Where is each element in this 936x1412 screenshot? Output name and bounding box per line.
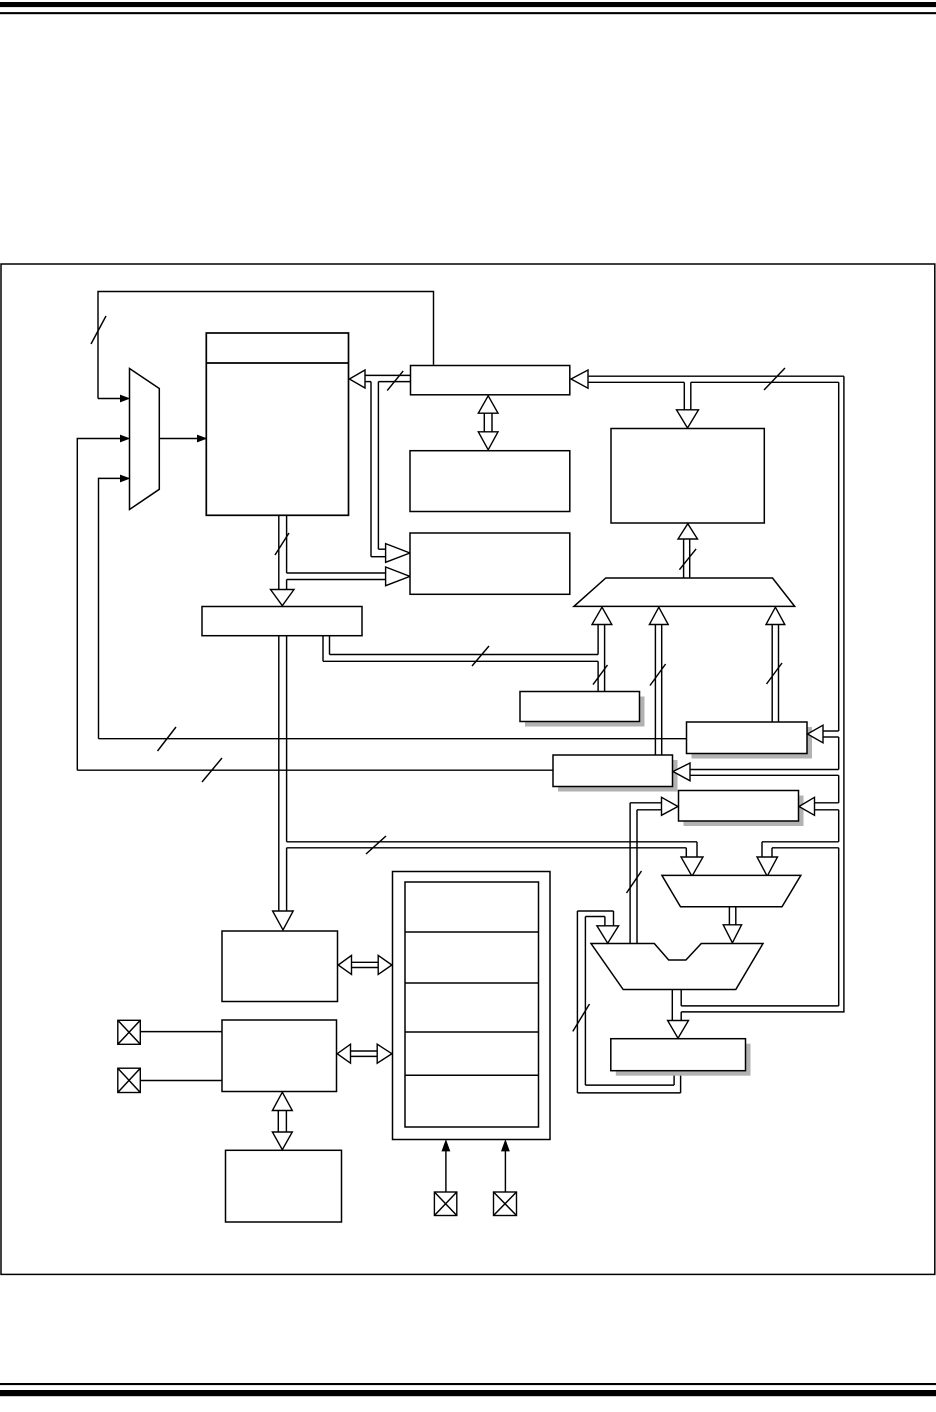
bus: program bus continuation down to RAM address register xyxy=(273,636,294,930)
bus-width tick on MUX1 input-2 wire xyxy=(202,758,222,782)
wire: MUX1 output into program memory xyxy=(159,435,206,441)
bus-width tick on top feedback wire xyxy=(91,316,106,344)
wire: MUX1 input 3 from register FSR feedback xyxy=(99,475,687,738)
bus arrow: data bus tap into register box4 xyxy=(799,797,839,815)
bus: branch of program bus into ALU mux (left input) xyxy=(287,842,703,876)
block peripheral module xyxy=(226,1150,342,1222)
bus arrow: from register box3 into funnel (input 2) xyxy=(649,607,668,755)
page footer thin rule xyxy=(0,1383,936,1385)
bus arrow: from register STATUS-low into funnel (input 1) xyxy=(592,607,612,691)
figure border frame xyxy=(1,264,935,1274)
block RAM address register xyxy=(222,931,338,1002)
register W reg xyxy=(611,1039,751,1076)
block instruction register xyxy=(202,607,362,636)
block RAM file registers (outer) xyxy=(393,872,551,1140)
bus-width tick on funnel input 1 xyxy=(593,665,608,685)
bus arrow: data bus branch down into stack xyxy=(677,382,699,428)
bus arrow double: I/O ports control to RAM xyxy=(337,1044,392,1063)
block program counter latch xyxy=(411,366,570,395)
bus arrow: PC latch branch down into instruction decode (upper) xyxy=(371,382,410,563)
bus: main data bus (right side trunk) xyxy=(588,376,844,1012)
register box4 (literal/status latch) xyxy=(679,791,804,827)
bus-width tick on decode feed bus xyxy=(472,646,489,666)
pin pad X3 (crossed square) wire up into RAM block xyxy=(434,1141,456,1216)
bus-width tick on funnel input 2 xyxy=(650,664,666,686)
bus: instruction decode feed from instruction register to funnel input 1 xyxy=(323,636,598,662)
bus arrow: program bus branch into instruction decode (lower) xyxy=(287,567,410,586)
register box2 (FSR) xyxy=(687,722,813,759)
bus arrow: MUX2 output into ALU right input xyxy=(723,907,741,943)
bus arrow: data bus into PC latch right edge xyxy=(571,370,588,388)
block I/O ports control xyxy=(222,1020,337,1092)
bus arrow: ALU output down into W register and onto data bus xyxy=(668,990,689,1039)
wire: top feedback loop into MUX1 input 1 xyxy=(98,292,434,402)
bus arrow: W register feedback loop into ALU left input xyxy=(577,911,680,1093)
bus-width tick on MUX1 input-3 wire xyxy=(158,727,177,751)
register box3 (STATUS) xyxy=(553,755,678,792)
mux MUX2 (ALU input mux) xyxy=(662,875,801,906)
mux MUX3 program counter address funnel xyxy=(574,578,795,606)
block U1 program memory xyxy=(206,333,348,515)
bus-width tick on box4-ALU bus xyxy=(627,871,642,893)
wire: MUX1 input 2 from register STATUS feedback xyxy=(77,435,553,770)
pin pad X2 (crossed square) with wire to I/O block xyxy=(118,1068,222,1092)
bus-width tick on program bus xyxy=(275,533,289,555)
bus arrow: funnel up into stack xyxy=(678,524,698,578)
block device timing generation xyxy=(410,451,570,512)
block stack (8-level stack) xyxy=(611,429,764,524)
page header thick rule xyxy=(0,2,936,7)
register box1 (STATUS low) xyxy=(520,692,645,727)
bus-width tick on funnel input 3 xyxy=(767,663,783,684)
block instruction decode and control xyxy=(410,533,570,594)
mux MUX1 (program address mux) xyxy=(130,369,160,510)
bus-width tick on main data bus top run xyxy=(764,368,785,390)
bus arrow double: I/O ports control to peripheral module xyxy=(272,1092,292,1150)
block RAM file registers (inner array) xyxy=(405,882,539,1127)
page header thin rule xyxy=(0,12,936,14)
bus arrow: data into program memory from PC latch xyxy=(349,370,410,388)
bus arrow: data bus branch into ALU mux (right input) xyxy=(757,842,839,876)
bus arrow double: PC latch to timing generation (bidirectional) xyxy=(478,396,498,450)
bus: program bus from program memory down to instruction register xyxy=(271,515,295,605)
bus-width tick on W feedback loop xyxy=(573,1004,590,1031)
pin pad X1 (crossed square) with wire to I/O block xyxy=(118,1020,222,1044)
page footer thick rule xyxy=(0,1390,936,1396)
bus arrow double: RAM address register to RAM xyxy=(338,955,392,974)
bus arrow: from register box2 into funnel (input 3) xyxy=(766,607,785,722)
pin pad X4 (crossed square) wire up into RAM block xyxy=(494,1141,517,1216)
bus-width tick on ALU-mux left feed xyxy=(366,836,386,854)
bus-width tick on PC latch left segment xyxy=(387,371,403,391)
alu ALU (arithmetic logic unit) xyxy=(591,944,763,990)
bus arrow: ALU result up into register box4 (left side) xyxy=(630,797,678,943)
bus-width tick on stack arrow xyxy=(679,549,696,570)
bus arrow: data bus tap into register box2 xyxy=(808,725,839,743)
bus arrow: data bus tap into register box3 xyxy=(673,763,839,781)
